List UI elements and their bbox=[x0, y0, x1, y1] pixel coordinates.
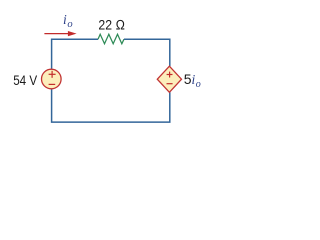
minus sign of dependent source bbox=[167, 83, 173, 85]
svg-text:54 V: 54 V bbox=[13, 72, 38, 88]
minus sign of 54V source bbox=[49, 83, 56, 85]
wire bottom-right segment bbox=[110, 92, 170, 122]
wire top-left segment bbox=[52, 39, 98, 69]
svg-text:o: o bbox=[67, 19, 72, 30]
voltage source 54V circle bbox=[42, 69, 62, 89]
current arrow io bbox=[44, 31, 76, 36]
svg-text:o: o bbox=[196, 79, 201, 90]
dependent source diamond 5io bbox=[157, 66, 181, 92]
wire bottom-left segment bbox=[52, 89, 110, 122]
plus sign of 54V source bbox=[49, 71, 56, 78]
resistor 22 ohm zigzag bbox=[98, 34, 124, 44]
wire top-right segment bbox=[124, 39, 170, 66]
svg-text:22 Ω: 22 Ω bbox=[98, 17, 125, 33]
plus sign of dependent source bbox=[167, 72, 173, 78]
svg-text:i: i bbox=[63, 12, 67, 27]
